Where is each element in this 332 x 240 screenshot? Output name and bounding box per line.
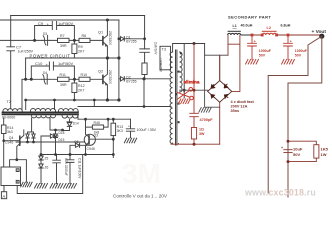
svg-text:Z6: Z6 [45,166,49,170]
zener Z3 [39,164,43,184]
junction node (118.9,58) [117,56,120,59]
svg-text:D14: D14 [73,122,79,126]
wire bridge top up [220,35,240,91]
wire rail2 [0,19,119,21]
capacitor C12 [126,119,134,138]
wire rail3 upper base rail [0,39,103,41]
wire bridge bottom vertical [219,103,221,145]
svg-text:www.cxc3018.ru: www.cxc3018.ru [244,188,316,198]
diode D4 glyph [42,74,50,84]
wire rail y154.5 [41,154,113,156]
svg-text:2K7: 2K7 [78,88,84,92]
wire snubber vertical A x144.6 [144,16,146,49]
svg-text:R45: R45 [94,121,100,125]
transformer T2 upper winding group1 [3,109,22,111]
junction node (red square) [251,34,254,37]
junction node (107.4,20) [106,19,109,22]
wire L1 to L2 to Vout [246,35,321,64]
svg-text:T3: T3 [162,47,166,51]
transformer T1 feedback box [160,46,171,70]
svg-text:3K3: 3K3 [117,129,123,133]
capacitor C8 [140,49,150,63]
resistor R7 [58,38,70,42]
wire bridge bottom to ground [205,55,220,107]
transistor Q2 [102,75,104,83]
junction node (144,78.8) [142,77,145,80]
wire bottom rail red [171,143,220,144]
junction node (55.5,130) [54,129,57,132]
svg-text:1K5: 1K5 [321,146,329,151]
junction node (34.6,40.4) [33,39,36,42]
inductor L1 [228,31,252,35]
transistor Q3 [84,134,95,145]
svg-text:1000uF: 1000uF [295,49,308,53]
junction node (33.5,142) [32,141,35,144]
wire bridge right up [228,35,240,91]
junction node (74.4,100) [73,99,76,102]
svg-text:Q3: Q3 [94,134,99,138]
junction dot T1 node [175,42,195,123]
svg-text:D4: D4 [43,71,47,75]
resistor R14 [3,118,5,125]
svg-text:00-0000: 00-0000 [2,116,15,120]
wire elimina strap vertical [183,44,185,99]
transformer T2 lower winding [32,116,56,118]
junction node (25.6,79.3) [24,78,27,81]
transformer T1 secondary winding [180,52,183,92]
svg-text:3W: 3W [199,132,205,136]
red / secondary labels [184,15,329,157]
svg-text:Q1: Q1 [98,31,103,35]
svg-text:3k3: 3k3 [7,130,13,134]
diode pair D6 D7 [26,132,35,142]
junction node (62.5,130) [61,129,64,132]
ground g1 [21,182,32,187]
junction node (113.3,119.2) [112,118,115,121]
svg-text:C10: C10 [35,61,43,66]
junction node (70,154.5) [69,153,72,156]
diode bridge [208,81,232,103]
svg-text:C11 1uF/100V: C11 1uF/100V [77,158,81,179]
ground under C12 [124,138,136,143]
svg-text:1uF/50V: 1uF/50V [58,21,73,26]
resistor R6 [79,38,90,42]
ground cap2 [282,59,295,64]
svg-text:C7: C7 [16,44,22,49]
resistor R45 [86,119,109,127]
wire left border vertical [10,16,12,109]
ground cap1 [246,59,259,64]
svg-text:L1: L1 [233,24,237,28]
diode D2 [119,78,170,80]
svg-text:+ Vout: + Vout [312,29,327,35]
diode D14 [63,120,73,131]
svg-text:1Ω: 1Ω [199,128,204,132]
svg-text:4700pF: 4700pF [200,118,214,122]
svg-text:R6: R6 [82,34,87,38]
svg-text:1W: 1W [321,152,327,157]
capacitor 4700pF branch [190,44,199,128]
svg-text:D18: D18 [59,131,65,135]
transformer T2 secondary down wires [32,116,78,133]
svg-text:2uF/1kV: 2uF/1kV [154,42,158,55]
junction node (194,90.2) [193,89,196,92]
resistor R8 100R [142,63,147,75]
transformer T1 polarity dot [180,53,182,55]
wire node down to rail5a [143,79,145,107]
wire rail5b [78,118,131,120]
junction dots black [2,19,146,162]
junction node (27.5,142) [26,141,29,144]
svg-text:C945: C945 [5,140,13,144]
ground g2 [35,184,48,189]
capacitor 1000uF second [284,35,293,59]
diode D18 [54,130,58,155]
junction node (194,144.2) [193,143,196,146]
junction node (red square) [275,34,278,37]
wire Vout branch 1 (to bottom left) [268,36,322,197]
resistor R10 [79,77,90,81]
svg-text:T2: T2 [7,100,11,104]
ground g3 [50,184,63,189]
transformer T1 core [176,50,177,145]
diode D6 [70,143,86,154]
transformer T1 polarity dot [178,71,180,73]
junction node (70,154.5) [69,153,72,156]
svg-text:+: + [254,39,256,43]
junction node (red square) [287,34,290,37]
transformer T2 upper winding group3 [59,109,79,111]
junction node (194,43.5) [193,42,196,45]
svg-text:A: A [3,194,6,199]
ground elimina red [178,99,190,104]
svg-text:R7: R7 [60,34,65,38]
svg-text:1uF/50V: 1uF/50V [58,61,73,66]
svg-text:D3: D3 [43,32,47,36]
diode D15 [41,134,58,155]
wire vertical rail4 to rail5a [93,100,95,107]
ground g4 [64,184,77,189]
svg-text:100R/2W: 100R/2W [159,58,163,73]
capacitor C11 [66,155,74,184]
svg-text:2SC5200: 2SC5200 [108,70,112,84]
transistor Q1 [102,37,104,45]
svg-text:+: + [281,146,283,150]
wire bottom return border [17,155,83,194]
resistor R9 [73,40,75,44]
wire vertical x22 [22,58,26,110]
junction node (31.3,79.3) [30,78,33,81]
diode D1 [119,38,145,40]
capacitor 1000uF first [248,35,257,59]
wire rail y142 [16,141,84,143]
svg-text:39R: 39R [60,44,67,48]
junction node (113.3,154.5) [112,153,115,156]
junction node (74.4,79.3) [73,78,76,81]
transformer T1 polarity dot [178,103,180,105]
svg-text:2SC5200: 2SC5200 [108,31,112,45]
resistor R13 [112,119,114,123]
wire mid rail [26,57,119,59]
junction node (54.5,100) [53,99,56,102]
junction node (41,154.5) [40,153,43,156]
svg-text:3M: 3M [122,158,161,189]
svg-text:200V 12A: 200V 12A [231,104,248,108]
junction node (144.6,38.8) [143,37,146,40]
svg-text:D15: D15 [59,138,65,142]
junction node (55.5,154.5) [54,153,57,156]
svg-text:+: + [128,124,130,128]
svg-text:Controllo V out da 1 .. 20V: Controllo V out da 1 .. 20V [113,194,168,199]
svg-text:D6: D6 [75,140,79,144]
zener Z2 [39,155,43,165]
svg-text:BY255: BY255 [126,80,136,84]
svg-text:Z5: Z5 [45,157,49,161]
transformer T1 primary winding [170,52,173,144]
junction node (25.7,100) [24,99,27,102]
svg-text:Q2: Q2 [98,69,103,73]
zener D3 glyph [42,35,50,45]
svg-text:50V: 50V [259,54,266,58]
transformer T2 primary riser wires [26,100,55,110]
resistor 1K5 [314,145,319,158]
IC box U1 [1,167,21,186]
capacitor C9 [35,22,75,41]
wire Vout branch 2 (through 10uF block) [288,36,322,141]
junction node (118.9,38.8) [118,37,121,40]
transformer T1 polarity dot [178,121,180,123]
ammeter A box [1,192,6,199]
ground under bridge [199,108,211,113]
junction node (107.4,100) [106,98,109,101]
svg-text:SECONDARY PART: SECONDARY PART [228,15,271,20]
junction node (16.8,159.7) [15,158,18,161]
10uF / 1K5 block [284,141,319,161]
wire vertical B x118.9 [118,20,120,100]
svg-text:50V: 50V [295,54,302,58]
red junction squares [251,34,290,37]
junction node (108.1,119.2) [107,118,110,121]
svg-text:POWER CIRCUIT: POWER CIRCUIT [30,53,71,58]
svg-text:39R: 39R [60,83,67,87]
svg-text:BY255: BY255 [126,40,136,44]
junction node (118.9,100) [117,98,120,101]
transformer T1 polarity dot [175,93,177,95]
junction node (107.4,58) [106,56,109,59]
capacitor 10uF [284,150,292,153]
svg-text:R11: R11 [60,73,66,77]
scissors [177,88,194,100]
junction node (288,141.2) [287,140,290,143]
svg-text:2K7: 2K7 [78,49,84,53]
junction node (144,106.5) [143,105,146,108]
junction node (85.5,154.5) [84,153,87,156]
svg-text:100uF / 35V: 100uF / 35V [137,128,157,132]
capacitor C7 [7,47,15,51]
transformer T2 upper winding group2 [31,109,56,112]
wire top rail1 [11,15,145,17]
svg-text:35ns: 35ns [231,109,240,113]
Vout node dot [319,34,324,39]
wire rail5a to T1 tap [78,106,171,108]
svg-text:4 x diodi fast: 4 x diodi fast [231,100,255,104]
junction node (288,161.6) [287,160,290,163]
svg-text:C9: C9 [38,21,44,26]
resistor R11 [58,77,70,81]
svg-text:+: + [290,39,292,43]
svg-text:1000uF: 1000uF [259,49,272,53]
svg-text:L2: L2 [267,26,271,30]
transformer T2 core [3,112,79,114]
wire rail4 [26,99,119,101]
capacitor C20 [53,155,61,184]
transistor Q4 [19,136,21,145]
svg-text:10uF: 10uF [293,146,303,151]
resistor 1ohm 3W [191,128,196,140]
junction node (113.3,139.2) [112,138,115,141]
wire IC top rail [10,160,27,183]
wire node right vertical [205,44,228,81]
inductor L2 red [262,31,277,35]
capacitor C10 [31,62,74,79]
svg-text:C945: C945 [87,147,95,151]
svg-text:40.0uH: 40.0uH [241,24,253,28]
svg-text:6.8uH: 6.8uH [281,24,291,28]
wire T1 top to node [173,44,205,53]
junction node (94.3,100) [93,99,96,102]
wire elimina horizontal to bridge [180,89,208,91]
svg-text:elimina: elimina [184,79,200,84]
junction node (85.5,119.2) [84,118,87,121]
junction node (74.4,40.4) [73,39,76,42]
junction node (184.2,90.2) [183,89,186,92]
svg-text:C20 2200uF: C20 2200uF [64,158,68,176]
wire rail3' lower base rail [22,78,103,80]
junction node (3.7,140.7) [2,139,5,142]
svg-text:R10: R10 [81,73,88,77]
junction node (red square) [261,34,264,37]
resistor R12 [73,79,75,83]
svg-text:50V: 50V [293,152,300,157]
